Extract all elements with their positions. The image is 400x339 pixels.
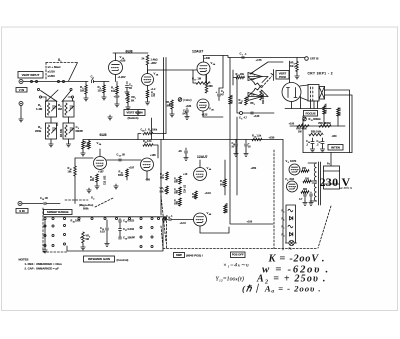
svg-text:200: 200 — [302, 167, 307, 170]
resistor R30 100k — [309, 133, 323, 136]
svg-text:VERT GAIN: VERT GAIN — [126, 111, 142, 115]
switch contacts column B — [52, 225, 54, 227]
svg-text:+1.28V: +1.28V — [118, 76, 126, 79]
CRT funnel — [300, 85, 308, 101]
svg-text:C14 .02: C14 .02 — [184, 184, 187, 193]
svg-text:(Control): (Control) — [117, 258, 129, 262]
ground v3 cathode 1 — [96, 182, 98, 184]
tube V2B — [197, 99, 209, 111]
svg-text:1.5k: 1.5k — [257, 135, 262, 138]
resistor R27 50k — [166, 172, 169, 180]
ground under VR1 — [127, 103, 129, 105]
resistor R34 200k — [179, 198, 182, 206]
svg-text:SWEEP RANGE: SWEEP RANGE — [47, 210, 69, 214]
resistor R24 500k — [126, 169, 129, 177]
svg-text:6U8: 6U8 — [100, 133, 107, 137]
wire V4A plate — [199, 160, 201, 168]
capacitor C23 20 — [245, 140, 247, 144]
attenuator contact g — [70, 88, 72, 90]
wire contact row bus — [44, 216, 166, 218]
resistor R11 110 — [147, 86, 149, 90]
svg-text:1M: 1M — [198, 78, 201, 81]
wire bottom crt section — [303, 152, 352, 154]
ground under C5 — [125, 90, 129, 95]
svg-text:7: 7 — [242, 55, 243, 57]
svg-text:NOTES: NOTES — [19, 258, 29, 262]
connector CRT cap — [305, 57, 309, 61]
capacitor C18 250PF — [119, 237, 122, 239]
capacitor C15 0.23 — [106, 220, 108, 227]
wire after C3 — [94, 81, 110, 83]
ground under R6 — [103, 93, 105, 95]
wire focus verticals — [303, 114, 338, 153]
svg-text:1.4M: 1.4M — [36, 107, 43, 111]
resistor tap 350 — [301, 191, 309, 194]
svg-text:c: c — [284, 228, 285, 230]
switch S2 contact row — [44, 217, 46, 219]
svg-text:+187: +187 — [98, 171, 104, 174]
svg-text:+195: +195 — [120, 59, 126, 63]
svg-text:+15: +15 — [183, 173, 188, 176]
heater chain rails — [286, 205, 296, 243]
svg-text:P.L: P.L — [289, 248, 293, 251]
transformer T1 core — [319, 162, 321, 205]
svg-text:6: 6 — [287, 180, 288, 182]
ground under R3 — [50, 139, 52, 142]
capacitor C24 0.2 — [312, 138, 314, 141]
ground under C25 — [320, 147, 324, 152]
cross network X wires — [248, 77, 268, 97]
svg-text:1M: 1M — [251, 78, 254, 81]
svg-text:580PF: 580PF — [76, 129, 84, 133]
wire dashed S2 link — [65, 198, 113, 207]
ground column A — [43, 248, 47, 253]
svg-text:+123: +123 — [202, 113, 208, 117]
resistor R23 200 — [96, 174, 99, 182]
ground under C15 — [105, 242, 109, 247]
capacitor C13 .05 — [119, 159, 121, 161]
ground under C6 — [185, 115, 189, 120]
svg-text:150k: 150k — [75, 220, 81, 223]
svg-text:-150: -150 — [145, 179, 151, 182]
svg-text:+197: +197 — [129, 167, 135, 170]
label small box SWP — [174, 253, 185, 258]
wire vert gain rail — [151, 118, 153, 140]
wire +230 bus — [203, 56, 305, 58]
CRT screen envelope — [282, 83, 301, 102]
svg-text:12AU7: 12AU7 — [192, 50, 203, 54]
wire B+ bus mid — [83, 139, 283, 141]
svg-text:0.023: 0.023 — [128, 218, 135, 222]
capacitor C8 4.7 — [251, 112, 253, 114]
pilot lamp PL — [286, 242, 297, 244]
wire feedback vertical 2 — [165, 58, 167, 134]
svg-text:0.003: 0.003 — [128, 227, 135, 231]
resistor R26 500 — [224, 179, 227, 187]
svg-text:a: a — [284, 212, 285, 214]
wire x237 vertical — [237, 75, 240, 113]
ground v3 cathode 3 — [126, 177, 128, 180]
svg-text:250PF: 250PF — [128, 235, 136, 239]
svg-text:x1 + Maxi: x1 + Maxi — [48, 65, 61, 69]
label SWEEP RANGE box — [44, 210, 73, 215]
capacitor C17 0.003 — [119, 229, 122, 231]
resistor R19 on long line — [229, 58, 231, 97]
svg-text:680: 680 — [209, 85, 214, 88]
ground under VR4 — [296, 72, 298, 75]
wire left rail sweep — [160, 140, 162, 216]
svg-text:4.7k: 4.7k — [147, 140, 152, 143]
ground under C22 — [234, 152, 238, 157]
wire dashed boundary vertical — [273, 150, 275, 249]
wire diag to crt — [250, 62, 283, 74]
wire crt base right bot — [325, 95, 353, 153]
svg-text:(Switch): (Switch) — [128, 116, 139, 120]
wire attn mid left — [50, 117, 52, 123]
capacitor C6 .047 — [186, 108, 188, 109]
potentiometer VERT POSI — [273, 70, 275, 81]
resistor R33 body — [337, 108, 340, 116]
svg-text:-840: -840 — [332, 135, 338, 138]
svg-text:VR6: VR6 — [318, 122, 323, 125]
svg-text:R36 500k: R36 500k — [226, 202, 228, 213]
wire V2B cathode — [203, 111, 223, 117]
attenuator contact h — [71, 96, 73, 98]
svg-text:3: 3 — [254, 104, 255, 106]
svg-text:+100: +100 — [289, 123, 295, 126]
wire +100 line — [231, 223, 274, 225]
wire V2A plate — [203, 56, 205, 63]
wire crt bottom leads — [292, 97, 301, 109]
svg-text:CRT IS: CRT IS — [310, 57, 319, 61]
svg-text:17: 17 — [194, 80, 196, 82]
label VERT INPUT — [18, 72, 43, 79]
svg-text:+130: +130 — [254, 114, 260, 118]
svg-text:5: 5 — [288, 162, 289, 164]
svg-text:100k: 100k — [166, 105, 172, 108]
svg-text:+185: +185 — [150, 154, 156, 157]
svg-text:(6045 POS) /: (6045 POS) / — [186, 254, 203, 258]
connector sweep input jack — [18, 202, 22, 206]
resistor R29 200 — [179, 187, 182, 195]
svg-text:110: 110 — [151, 95, 156, 98]
wire dashed sweep diag — [161, 196, 166, 242]
connector J1 vertical input jack — [19, 80, 23, 84]
svg-text:CRT 3KP1 - 2: CRT 3KP1 - 2 — [308, 72, 333, 76]
svg-text:1M: 1M — [290, 65, 293, 68]
resistor R7 510 — [116, 82, 118, 87]
capacitor C10 .05 — [44, 202, 46, 204]
wire dashed bottom boundary — [163, 248, 317, 250]
wire attn mid right — [68, 117, 70, 123]
svg-text:12AU7: 12AU7 — [197, 155, 208, 159]
resistor heater Ra — [288, 209, 293, 212]
capacitor C3 series input — [92, 80, 94, 82]
node connector -130 — [240, 112, 243, 115]
wire plate bus 6U8 — [113, 52, 148, 54]
tube V4B — [194, 213, 207, 226]
resistor R35 75k — [195, 191, 198, 199]
wire dashed sweep box right — [166, 217, 168, 248]
svg-text:510: 510 — [111, 89, 116, 93]
resistor R39 100k row — [143, 132, 153, 135]
wire R13 left — [233, 70, 236, 85]
svg-text:b: b — [284, 220, 285, 222]
svg-text:1. RES : UNMARKED = Ohm: 1. RES : UNMARKED = Ohm — [25, 262, 63, 266]
svg-text:+250: +250 — [251, 167, 257, 170]
svg-text:(ℏ｜ Aₐ = - 2οου .: (ℏ｜ Aₐ = - 2οου . — [242, 284, 321, 294]
potentiometer VR1 5K — [127, 92, 129, 94]
attenuator contact f — [39, 96, 41, 98]
resistor R4 43k with cap C2 — [63, 123, 74, 139]
switch S1 contact d — [62, 80, 64, 82]
svg-text:R14 100k: R14 100k — [262, 93, 265, 104]
resistor R15 680 — [206, 75, 208, 83]
svg-text:110: 110 — [98, 89, 103, 93]
wire column A link — [44, 220, 46, 248]
wire crt pins down — [311, 101, 318, 109]
capacitor C14b top — [185, 148, 187, 150]
svg-text:+: + — [216, 90, 218, 94]
capacitor C5 50 — [126, 82, 128, 85]
svg-text:50k: 50k — [160, 191, 165, 194]
wire vertical x223 — [219, 56, 223, 89]
potentiometer VR4 1M — [296, 58, 298, 62]
ground under R4 — [68, 139, 70, 142]
switch contacts column E — [151, 226, 153, 228]
wire input line — [23, 81, 88, 83]
ground under R9 — [85, 94, 87, 96]
diode D1 — [290, 217, 293, 220]
resistor tap 310 — [303, 180, 311, 183]
resistor R17 — [245, 97, 248, 105]
svg-text:3: 3 — [254, 75, 255, 77]
svg-text:500k: 500k — [83, 208, 89, 211]
tube V6 — [287, 181, 298, 192]
resistor R3 220k with trimmer — [46, 123, 57, 139]
ground filter 2 — [309, 201, 313, 206]
svg-text:350: 350 — [303, 188, 308, 191]
svg-text:C12 .002: C12 .002 — [105, 175, 107, 185]
svg-text:8: 8 — [241, 119, 242, 121]
capacitor C22 20 — [235, 140, 237, 144]
svg-text:INTEN/SW GAIN: INTEN/SW GAIN — [88, 257, 110, 261]
svg-text:200: 200 — [90, 179, 95, 182]
ground under C24 — [310, 147, 314, 152]
svg-text:VERT INPUT: VERT INPUT — [22, 73, 40, 77]
svg-text:1N70: 1N70 — [290, 159, 297, 163]
label FOCUS box — [304, 111, 318, 117]
svg-text:Y₁₂=1οοₖ(ʏ): Y₁₂=1οοₖ(ʏ) — [216, 276, 244, 283]
wire dashed sweep box — [43, 208, 67, 252]
resistor R14 100k rotated — [260, 90, 263, 100]
svg-text:×₁=4ₖ∼υ: ×₁=4ₖ∼υ — [223, 263, 249, 269]
svg-text:+185: +185 — [186, 105, 192, 108]
svg-text:2M: 2M — [58, 107, 63, 111]
wire dashed wiper link — [262, 76, 272, 87]
wire v3a coupling — [107, 159, 142, 161]
capacitor C7 on bus — [242, 56, 244, 58]
capacitor filter 1 — [304, 192, 306, 193]
ground under C23 — [244, 152, 248, 157]
ground filter 1 — [303, 201, 307, 206]
svg-text:.047: .047 — [182, 113, 187, 116]
switch S1 contact a — [30, 80, 32, 82]
svg-text:6X4: 6X4 — [290, 177, 295, 181]
label S IN box — [16, 209, 28, 214]
potentiometer VR9 5M — [82, 232, 85, 243]
resistor R37 1M — [82, 141, 85, 149]
svg-text:+100: +100 — [247, 221, 253, 224]
svg-text:R19 51k: R19 51k — [230, 94, 233, 104]
svg-text:+175: +175 — [256, 58, 263, 62]
svg-text:+85V: +85V — [151, 61, 157, 65]
wire R8 to V1B — [147, 65, 149, 74]
wire dashed transformer link — [318, 206, 331, 248]
wire V4B output — [200, 226, 229, 233]
handwritten 19k ohm annotation — [178, 98, 182, 102]
tube V3B — [141, 158, 154, 171]
wire under crt bus — [285, 108, 331, 110]
wire feedback vertical 1 — [163, 58, 165, 140]
switch S1 dashed outline — [46, 62, 78, 64]
resistor R36 500k — [224, 205, 227, 213]
wire gnd jack stem — [20, 106, 22, 118]
switch S1 contact c — [57, 80, 59, 82]
switch contacts column D — [140, 226, 142, 228]
wire attenuator link 2 — [42, 97, 73, 101]
transformer T1 primary windings — [314, 163, 316, 181]
connector ground jack — [19, 102, 23, 106]
ground under R11 — [147, 98, 149, 100]
svg-text:1M: 1M — [251, 94, 254, 97]
resistor R6 110 — [103, 85, 106, 93]
resistor R1 1.4M with trimmer — [46, 101, 57, 117]
svg-text:d: d — [284, 236, 285, 238]
CRT deflection plates — [287, 88, 298, 98]
wire sweep input — [22, 203, 43, 205]
svg-text:0.23: 0.23 — [100, 231, 105, 234]
wire rows to feedback — [138, 134, 166, 159]
svg-text:POSI: POSI — [279, 75, 286, 79]
svg-text:x1/10: x1/10 — [48, 70, 56, 74]
svg-text:125: 125 — [85, 145, 90, 148]
wire R26 stub — [224, 160, 226, 195]
resistor R40 4.7k row — [143, 144, 153, 147]
svg-text:500k: 500k — [118, 174, 124, 177]
svg-text:310: 310 — [305, 178, 310, 181]
svg-text:9: 9 — [89, 237, 90, 239]
tube V4A — [194, 168, 207, 181]
ground under VR2 — [171, 109, 173, 112]
capacitor C19 — [166, 219, 169, 221]
wire V1A cathode — [115, 75, 117, 82]
svg-text:x1/50: x1/50 — [48, 74, 56, 78]
label VERT POSI box — [276, 71, 289, 80]
resistor R13 20k — [236, 76, 245, 79]
svg-text:+13.5: +13.5 — [205, 192, 212, 195]
svg-text:13: 13 — [119, 156, 121, 158]
wire R20 connections — [75, 158, 93, 204]
svg-text:1.4kΩ: 1.4kΩ — [151, 58, 158, 62]
svg-text:+230: +230 — [269, 136, 275, 140]
label INTEN box — [328, 145, 343, 151]
resistor R9 1M grid leak — [85, 82, 87, 86]
tube V2A — [197, 62, 210, 75]
label V IN — [16, 88, 27, 93]
switch contacts column A — [44, 225, 46, 227]
potentiometer VR7 50k — [166, 186, 169, 194]
resistor heater Rc — [288, 225, 293, 228]
cross network wedge lower — [248, 93, 262, 101]
diode D2 — [290, 233, 293, 236]
svg-text:5M: 5M — [86, 238, 89, 241]
ground below jack — [19, 117, 23, 122]
ground under vert gain — [108, 115, 112, 120]
svg-text:POS OFF: POS OFF — [232, 253, 244, 257]
svg-text:R4 43k: R4 43k — [60, 128, 63, 137]
tube V1B pentode 6U8 — [142, 74, 154, 86]
wire V1B plate line — [148, 70, 198, 74]
capacitor C16 0.023 — [119, 219, 121, 220]
svg-text:5K: 5K — [131, 99, 134, 103]
svg-text:ac 50½ ⅓: ac 50½ ⅓ — [340, 186, 353, 190]
svg-text:(500k): (500k) — [324, 122, 331, 125]
resistor R2 2M with trimmer — [63, 101, 74, 117]
svg-text:-20: -20 — [178, 150, 182, 153]
potentiometer focus pot — [303, 117, 307, 121]
svg-text:25: 25 — [319, 142, 321, 144]
resistor R10 125 — [88, 141, 91, 149]
svg-text:16k: 16k — [68, 171, 73, 174]
svg-text:50k: 50k — [160, 177, 165, 180]
wire focus row — [290, 125, 345, 127]
svg-text:500: 500 — [220, 184, 225, 187]
svg-text:200k: 200k — [174, 204, 180, 206]
attenuator contact e — [37, 88, 39, 90]
svg-text:V IN: V IN — [19, 88, 24, 92]
wire V3A plate — [99, 149, 101, 157]
label VERT GAIN box — [124, 110, 145, 116]
resistor R18 1M — [196, 82, 210, 85]
svg-text:100k: 100k — [152, 130, 158, 132]
wire crt base right top — [325, 90, 350, 153]
svg-text:2. CAP : UNMARKED = µF: 2. CAP : UNMARKED = µF — [25, 267, 60, 271]
svg-text:S IN: S IN — [19, 209, 24, 213]
capacitor C25 0.2 — [322, 138, 324, 141]
resistor R20 16k — [74, 166, 77, 176]
label POS OFF box — [231, 252, 246, 258]
svg-text:24: 24 — [308, 141, 310, 144]
tube V5 — [289, 164, 300, 175]
svg-text:+12.5: +12.5 — [180, 222, 187, 225]
wire bottom link box — [67, 220, 163, 251]
potentiometer VR5 400k 2W — [297, 125, 309, 128]
svg-text:+230: +230 — [204, 56, 211, 60]
CRT neck and base — [308, 85, 319, 102]
wire dashed sweep tail — [161, 226, 163, 249]
resistor R28 200 — [179, 176, 182, 184]
switch S1 contact b — [35, 80, 37, 82]
potentiometer VR2 100k — [171, 100, 174, 109]
svg-text:20k: 20k — [240, 73, 245, 76]
svg-text:INTEN: INTEN — [331, 145, 340, 149]
svg-text:400kΩ: 400kΩ — [313, 118, 321, 121]
svg-text:(19kΩ): (19kΩ) — [183, 98, 192, 102]
transformer T1 secondary box — [324, 166, 340, 189]
svg-text:R30 100k: R30 100k — [311, 131, 322, 134]
resistor R42 1.5k — [252, 138, 262, 141]
